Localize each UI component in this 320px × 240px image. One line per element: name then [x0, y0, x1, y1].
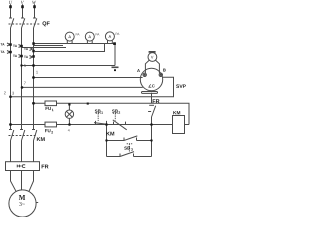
svg-text:FU: FU: [45, 128, 51, 133]
svg-text:TA: TA: [24, 55, 29, 59]
svg-text:V: V: [151, 56, 154, 60]
svg-text:KM: KM: [173, 110, 180, 116]
svg-text:∠C: ∠C: [148, 83, 155, 88]
svg-text:3~: 3~: [19, 202, 25, 208]
svg-text:1: 1: [101, 111, 103, 115]
svg-text:4: 4: [68, 128, 70, 132]
svg-text:1: 1: [52, 108, 54, 112]
svg-text:TA: TA: [13, 54, 18, 58]
svg-text:TA: TA: [13, 44, 18, 48]
svg-text:TA: TA: [24, 47, 29, 51]
svg-text:A: A: [137, 68, 140, 73]
svg-text:A: A: [68, 34, 71, 39]
svg-text:A: A: [109, 34, 112, 39]
svg-text:2: 2: [118, 111, 120, 115]
svg-text:FU: FU: [45, 106, 51, 111]
svg-text:TA: TA: [1, 42, 6, 46]
svg-text:FR: FR: [152, 99, 159, 105]
svg-text:KM: KM: [106, 132, 115, 138]
svg-text:B: B: [163, 68, 166, 73]
svg-text:A: A: [88, 34, 91, 39]
svg-text:TA: TA: [1, 50, 6, 54]
svg-text:QF: QF: [42, 21, 50, 27]
svg-text:FR: FR: [41, 164, 48, 170]
svg-text:3: 3: [131, 148, 133, 152]
svg-text:2: 2: [51, 130, 53, 134]
svg-text:KM: KM: [36, 137, 45, 143]
svg-text:M: M: [19, 194, 26, 202]
svg-text:SVP: SVP: [176, 84, 187, 90]
